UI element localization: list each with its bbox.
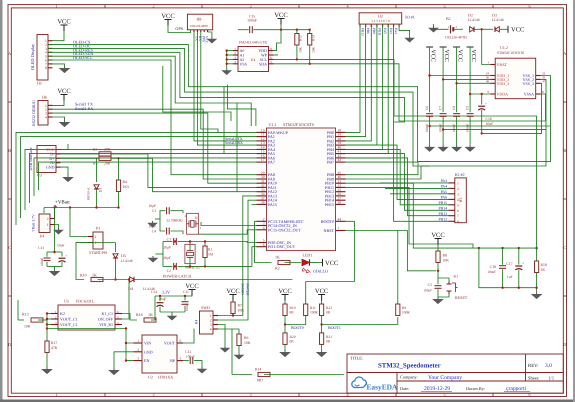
svg-text:A: A — [8, 51, 11, 56]
svg-text:32.768KHz: 32.768KHz — [166, 219, 183, 223]
svg-text:BOOT0: BOOT0 — [321, 219, 334, 224]
svg-text:10K: 10K — [443, 259, 450, 263]
svg-text:PA3: PA3 — [441, 179, 448, 183]
svg-text:C6: C6 — [425, 106, 429, 110]
svg-text:R8: R8 — [443, 254, 448, 258]
wire caps to rail and ground — [54, 208, 56, 253]
svg-text:FDC6331L: FDC6331L — [76, 299, 95, 304]
svg-text:R9: R9 — [402, 306, 406, 310]
svg-text:10uF: 10uF — [159, 297, 166, 301]
connector H1 OLED Display — [37, 35, 48, 81]
svg-text:100nF: 100nF — [425, 124, 429, 133]
svg-text:K1: K1 — [454, 275, 459, 279]
resistor R12 10K pullup SCL — [295, 34, 299, 46]
svg-text:2: 2 — [457, 187, 459, 191]
svg-text:OLED Display: OLED Display — [30, 43, 35, 70]
svg-text:SWDIO: SWDIO — [241, 283, 245, 295]
svg-text:A: A — [563, 51, 566, 56]
svg-text:7: 7 — [338, 227, 340, 231]
svg-text:PB14: PB14 — [439, 207, 448, 211]
bus corner wires from right field — [227, 85, 256, 126]
diode D1 RB510-A ESD on USB D+ — [96, 158, 98, 182]
svg-text:STM32F103C8T6: STM32F103C8T6 — [283, 122, 314, 127]
wire R3 to PA11 — [111, 154, 257, 188]
svg-text:6: 6 — [180, 339, 182, 343]
svg-text:C5: C5 — [428, 283, 433, 287]
svg-text:4: 4 — [210, 327, 212, 331]
svg-text:REV:: REV: — [528, 363, 539, 369]
wire OLED-RES net — [48, 52, 404, 122]
svg-text:PB8: PB8 — [372, 28, 376, 34]
svg-text:Company:: Company: — [400, 375, 418, 380]
capacitor C16 10uF on VDDA — [481, 94, 483, 105]
resistor R3 20R on USB D- — [61, 153, 100, 155]
svg-text:PB6: PB6 — [366, 28, 370, 34]
svg-text:100nF: 100nF — [452, 124, 456, 133]
wire GPS pin3 down joining bus — [201, 32, 218, 132]
svg-text:LED1: LED1 — [303, 253, 313, 258]
wire 3.3V output to U2 VIN — [47, 329, 134, 344]
H3 upper pin wires from left — [380, 182, 449, 184]
svg-text:PB11: PB11 — [378, 28, 382, 36]
svg-text:H6: H6 — [42, 95, 47, 100]
wire PB9 right — [346, 166, 430, 179]
svg-text:3: 3 — [249, 392, 251, 397]
svg-text:1: 1 — [137, 339, 139, 343]
svg-text:PB7: PB7 — [327, 160, 334, 165]
svg-text:R10: R10 — [80, 273, 87, 278]
VCC flag for H1 — [61, 24, 68, 26]
svg-text:VCC: VCC — [431, 232, 444, 239]
resistor R21 0R — [320, 333, 324, 345]
ground for P4 pin1 — [55, 225, 59, 229]
svg-text:Date:: Date: — [400, 386, 409, 391]
svg-text:2: 2 — [152, 3, 154, 8]
svg-text:PA5: PA5 — [383, 28, 387, 34]
svg-text:1K: 1K — [541, 268, 546, 272]
wire PA15 stub — [252, 203, 257, 205]
svg-text:BOOT1: BOOT1 — [328, 325, 341, 330]
svg-text:R22: R22 — [326, 306, 332, 310]
svg-text:20pF: 20pF — [164, 256, 171, 260]
GPS pin wires down — [193, 30, 195, 32]
svg-text:CR1220-4FTH: CR1220-4FTH — [445, 36, 467, 40]
wire U2 GND to ground — [114, 352, 134, 368]
wire H6 pin4 to ground — [53, 117, 65, 120]
svg-text:VIN_R1: VIN_R1 — [99, 322, 113, 327]
resistor R22 0R — [320, 304, 324, 316]
wire VCC rail to R12 R13 tops — [281, 29, 310, 31]
IC U5 FDC6331L — [58, 305, 115, 330]
svg-text:1: 1 — [55, 392, 57, 397]
long wire to PA4 — [25, 149, 257, 210]
svg-text:C3: C3 — [152, 209, 156, 213]
wire GPS RX to PA3 — [197, 32, 256, 145]
svg-text:EasyEDA: EasyEDA — [367, 383, 398, 392]
svg-text:PB15: PB15 — [439, 201, 448, 205]
svg-text:PB13: PB13 — [361, 28, 365, 36]
svg-text:D5: D5 — [121, 253, 126, 258]
svg-text:C11: C11 — [183, 290, 189, 294]
wire OLED-SCL net — [48, 60, 256, 175]
IC U2 HT7833 regulator — [142, 335, 177, 373]
wire OLED-DC net — [48, 48, 546, 166]
svg-text:6: 6 — [263, 243, 265, 247]
svg-text:X1: X1 — [195, 216, 200, 220]
connector P4 VBatt 3.7V — [39, 214, 50, 233]
svg-text:STM32_Speedometer: STM32_Speedometer — [378, 363, 441, 370]
svg-text:C1: C1 — [167, 238, 172, 242]
svg-text:PB13: PB13 — [439, 212, 448, 216]
resistor R4 1K5 vertical — [118, 158, 120, 180]
svg-text:UBLOX-M8N: UBLOX-M8N — [190, 24, 208, 28]
capacitor C11 100nF — [184, 296, 186, 300]
svg-text:C7: C7 — [438, 106, 442, 110]
svg-text:R1: R1 — [208, 248, 212, 252]
wire P3 pin2 to +VBatt — [70, 208, 88, 237]
svg-text:R11: R11 — [310, 306, 316, 310]
svg-text:1: 1 — [210, 314, 212, 318]
svg-text:3: 3 — [210, 323, 212, 327]
svg-text:USB Interface: USB Interface — [28, 147, 33, 170]
svg-text:BP: BP — [170, 358, 176, 363]
svg-text:IO #2: IO #2 — [455, 172, 465, 177]
ground for C14 C11 — [160, 311, 185, 313]
svg-text:VSS: VSS — [240, 61, 247, 66]
svg-text:LL4148: LL4148 — [468, 18, 480, 22]
svg-text:SWD: SWD — [201, 305, 210, 310]
svg-text:43: 43 — [338, 158, 342, 162]
svg-text:10uF: 10uF — [57, 244, 64, 248]
svg-text:1uF: 1uF — [507, 275, 513, 279]
wire rail down to filter caps — [43, 208, 45, 214]
svg-text:0R7: 0R7 — [257, 379, 263, 383]
VCC flag for H6 — [61, 94, 68, 96]
svg-text:PA5: PA5 — [441, 190, 448, 194]
diode D5 LL4148 from START to ON — [115, 243, 117, 253]
svg-text:C16: C16 — [486, 117, 492, 121]
svg-text:4: 4 — [45, 115, 47, 119]
resistor R13 10K at U5 input — [18, 319, 24, 321]
svg-text:VSS_3: VSS_3 — [523, 81, 534, 86]
wire BOOT1 to R9 — [322, 317, 398, 325]
svg-text:5: 5 — [457, 203, 459, 207]
svg-text:1M: 1M — [208, 253, 214, 257]
svg-text:8: 8 — [457, 220, 459, 224]
svg-text:1K5: 1K5 — [123, 185, 130, 189]
svg-text:4: 4 — [457, 198, 459, 202]
svg-text:38: 38 — [261, 201, 265, 205]
svg-text:R19: R19 — [290, 306, 296, 310]
svg-text:28: 28 — [338, 201, 342, 205]
svg-text:Drawn By:: Drawn By: — [466, 386, 485, 391]
svg-text:C13: C13 — [38, 246, 44, 250]
svg-text:R21: R21 — [326, 335, 332, 339]
connector P3 START-PB — [93, 232, 103, 249]
svg-text:PPS: PPS — [201, 36, 205, 42]
svg-text:10K: 10K — [311, 47, 315, 53]
wire VSS loop return — [430, 76, 551, 127]
wire VCC to H1 pin 1 — [53, 31, 65, 41]
svg-text:10K: 10K — [244, 341, 251, 345]
svg-text:H4: H4 — [195, 320, 199, 325]
resistor R19 0R — [283, 304, 287, 316]
svg-text:ON_OFF: ON_OFF — [98, 317, 114, 322]
svg-text:100nF: 100nF — [186, 355, 195, 359]
svg-text:D2: D2 — [468, 13, 473, 18]
wire PB10 to right field — [346, 183, 479, 248]
svg-text:R20: R20 — [290, 335, 296, 339]
resistor R18 1K — [536, 248, 538, 261]
svg-text:1: 1 — [47, 223, 49, 227]
svg-text:RESET: RESET — [455, 295, 468, 300]
wire PC15 to X1 — [198, 230, 256, 234]
svg-text:3.0: 3.0 — [545, 363, 552, 369]
svg-text:100nF: 100nF — [40, 258, 44, 267]
net POWER-LATCH wire — [134, 279, 292, 281]
svg-text:PB12: PB12 — [439, 218, 448, 222]
svg-text:C18: C18 — [490, 265, 496, 269]
resistor R5 20R on USB D+ — [61, 157, 100, 159]
svg-text:START-PB: START-PB — [89, 250, 107, 255]
svg-text:1: 1 — [95, 241, 97, 245]
svg-text:PB15: PB15 — [325, 202, 334, 207]
wire U4 address pins to ground — [227, 50, 233, 52]
svg-text:GIALLO: GIALLO — [313, 269, 328, 274]
wire NRST from MCU to reset circuit — [346, 231, 437, 271]
svg-text:PA7: PA7 — [268, 160, 275, 165]
svg-text:100nF: 100nF — [438, 124, 442, 133]
svg-text:BOOT0: BOOT0 — [291, 325, 304, 330]
svg-text:VCC: VCC — [278, 288, 291, 295]
svg-text:VCC: VCC — [226, 288, 239, 295]
svg-text:2: 2 — [152, 392, 154, 397]
long wire to PA1 — [21, 137, 257, 218]
wire PC13 to R2 — [255, 221, 272, 262]
svg-text:3: 3 — [137, 357, 139, 361]
svg-text:2: 2 — [137, 348, 139, 352]
wire PC14 to X1 — [201, 222, 257, 226]
svg-text:U5: U5 — [64, 299, 69, 304]
ground for H1 — [60, 66, 69, 73]
VCC flag for GPS — [165, 19, 172, 21]
wire OLED-CS net to bus — [48, 45, 550, 162]
ground for X2 caps — [162, 242, 164, 267]
svg-text:10K: 10K — [299, 47, 303, 53]
svg-text:VCC: VCC — [325, 260, 338, 267]
VDD rail wires — [429, 47, 431, 112]
svg-text:RX: RX — [198, 36, 202, 41]
wire PB6 right down — [346, 158, 449, 216]
svg-text:Serial2 RX: Serial2 RX — [225, 140, 243, 145]
svg-text:FM24CL64B-GTR: FM24CL64B-GTR — [239, 41, 267, 45]
svg-text:VBAT: VBAT — [497, 62, 508, 67]
junction BOOT0 node — [284, 316, 286, 333]
svg-text:D: D — [563, 342, 566, 347]
svg-text:VCC: VCC — [185, 283, 198, 290]
svg-text:VCC: VCC — [443, 50, 449, 62]
ground for crystal caps — [155, 218, 160, 220]
wire SWD pin4 to R6 — [218, 329, 239, 334]
capacitor C5 100nF on reset — [435, 285, 442, 287]
connector U3 USB Interface — [37, 146, 56, 173]
svg-text:U3: U3 — [37, 173, 42, 178]
wire PB8 right — [346, 162, 430, 175]
svg-text:K1_C1: K1_C1 — [101, 311, 113, 316]
svg-text:U2: U2 — [148, 375, 153, 380]
svg-text:U4: U4 — [251, 58, 256, 62]
U4 WP stub — [274, 54, 279, 56]
capacitor C12 100nF on BP — [183, 360, 189, 362]
svg-text:C: C — [563, 245, 566, 250]
wire U5 left pins common — [47, 313, 51, 315]
resistor R2 1K on LED line — [278, 260, 290, 264]
svg-text:1K: 1K — [148, 312, 153, 317]
svg-text:5: 5 — [443, 3, 445, 8]
svg-text:47K: 47K — [51, 346, 58, 350]
wire R5 to PA12 — [111, 158, 257, 191]
svg-text:LL4148: LL4148 — [121, 259, 133, 263]
svg-text:PA6: PA6 — [441, 196, 448, 200]
resistor R13 10K pullup SDA — [308, 34, 312, 46]
svg-text:SWCLK: SWCLK — [246, 283, 250, 296]
svg-text:Serial1 RX: Serial1 RX — [75, 106, 93, 111]
svg-text:100K: 100K — [402, 311, 410, 315]
wire USB VCC stub — [61, 144, 69, 150]
wire PA14 SWCLK down to SWD header — [214, 200, 257, 320]
svg-text:VOUT_C1: VOUT_C1 — [60, 317, 78, 322]
svg-text:6: 6 — [528, 3, 530, 8]
ground for H6 — [60, 120, 69, 127]
wire U5 K1_C1 to R16 — [122, 314, 137, 321]
svg-text:VOUT_C1: VOUT_C1 — [60, 322, 78, 327]
VCC flag right of D3 — [507, 26, 509, 33]
VCC flag for reset pullup — [435, 238, 442, 240]
svg-text:100nF: 100nF — [465, 124, 469, 133]
svg-text:5: 5 — [180, 357, 182, 361]
long wire to PA5 — [30, 154, 257, 203]
title block — [347, 354, 563, 393]
+VBatt rail — [44, 207, 119, 209]
svg-text:D: D — [8, 342, 11, 347]
ground for GPS — [207, 30, 209, 32]
svg-text:PA15: PA15 — [268, 202, 277, 207]
svg-text:R18: R18 — [541, 263, 547, 267]
svg-text:+VBatt: +VBatt — [55, 200, 70, 206]
svg-text:VCC: VCC — [274, 12, 287, 19]
svg-text:R16: R16 — [136, 312, 143, 317]
ground row under decoupling caps — [425, 145, 434, 151]
resistor R9 100K — [396, 304, 400, 316]
svg-text:R13: R13 — [22, 312, 29, 317]
connector H8 GPS UBLOX-M8N — [187, 14, 212, 30]
wire PD1 to crystal — [190, 247, 257, 267]
svg-text:3,3V: 3,3V — [162, 290, 170, 295]
svg-text:GND: GND — [144, 349, 153, 354]
svg-text:R17: R17 — [51, 341, 57, 345]
diode D4 LL4148 power latch — [98, 279, 129, 281]
resistor R1 1M across crystal — [204, 242, 206, 247]
IC U4 FM24CL64B-GTR — [238, 47, 269, 72]
svg-text:3: 3 — [457, 192, 459, 196]
svg-text:100nF: 100nF — [247, 19, 257, 23]
svg-text:1/1: 1/1 — [548, 375, 555, 381]
resistor R6 10K pulldown SWCLK — [237, 334, 241, 346]
wire PB11 right — [346, 187, 474, 248]
svg-text:VOUT: VOUT — [164, 341, 176, 346]
wire PA13 SWDIO down to SWD header — [214, 196, 257, 316]
wire P4 pin2 to +VBatt rail — [54, 208, 56, 219]
connector H4 SWD — [200, 311, 214, 334]
capacitor C14 10uF — [159, 296, 161, 301]
wire PB4 right down — [346, 149, 449, 204]
svg-text:VCC: VCC — [315, 288, 328, 295]
svg-text:Sheet:: Sheet: — [528, 375, 539, 380]
svg-text:IO #1: IO #1 — [405, 14, 415, 19]
svg-text:VIN: VIN — [144, 341, 151, 346]
svg-text:STM32F103C8T6: STM32F103C8T6 — [497, 51, 524, 55]
svg-text:TITLE:: TITLE: — [350, 356, 363, 361]
svg-text:H2: H2 — [378, 14, 383, 19]
svg-text:U1.2: U1.2 — [500, 45, 508, 50]
svg-text:6: 6 — [457, 209, 459, 213]
svg-text:B: B — [563, 148, 566, 153]
wire PD0 to crystal — [190, 242, 257, 243]
svg-text:20pF: 20pF — [164, 246, 171, 250]
connector H6 RS232 DEBUG — [38, 101, 48, 126]
svg-text:VCC: VCC — [57, 88, 70, 95]
wire SCL from U4 to right bus — [274, 59, 537, 248]
svg-text:2: 2 — [95, 235, 97, 239]
ground for H2 pin8 — [399, 24, 410, 36]
svg-text:NRST: NRST — [324, 228, 335, 233]
svg-text:R6: R6 — [244, 336, 249, 340]
IC U1.1 STM32F103C8T6 MCU — [267, 128, 336, 251]
svg-text:VCC: VCC — [430, 50, 436, 62]
svg-text:0R: 0R — [326, 340, 331, 344]
svg-text:B: B — [8, 148, 11, 153]
svg-text:GND: GND — [46, 165, 55, 170]
IC U1.2 STM32F103C8T6 power — [495, 58, 536, 98]
svg-text:10pF: 10pF — [149, 204, 156, 208]
wire R9 up to NRST net — [397, 231, 399, 305]
svg-text:R14: R14 — [255, 368, 261, 372]
svg-text:4: 4 — [263, 226, 265, 230]
resistor R11 100K from BOOT0 — [304, 304, 308, 316]
wire PB5 right down — [346, 154, 449, 211]
svg-text:P4: P4 — [40, 234, 44, 239]
svg-text:SDA: SDA — [259, 61, 267, 66]
wire PB7 right to long rail — [346, 161, 418, 163]
long wire to PA7 — [39, 162, 257, 190]
svg-text:RS232 DEBUG: RS232 DEBUG — [31, 100, 36, 126]
H2 pin wires to MCU PB pins — [346, 24, 361, 132]
capacitor C13 100nF — [47, 251, 62, 253]
svg-text:R2: R2 — [275, 266, 280, 271]
resistor R20 0R — [283, 333, 287, 345]
svg-text:10K: 10K — [238, 309, 245, 313]
svg-text:C: C — [8, 245, 11, 250]
svg-text:VCC: VCC — [470, 50, 476, 62]
svg-text:0R: 0R — [290, 311, 295, 315]
svg-text:VSSA: VSSA — [524, 92, 534, 97]
wire H1 pin7 to ground — [53, 64, 65, 66]
wire ON_OFF up to latch line — [122, 280, 129, 320]
wire GPS TX to PA2 Serial2 — [194, 32, 257, 141]
net label 3,3V and VCC flag — [154, 296, 156, 320]
svg-text:POWER-LATCH: POWER-LATCH — [163, 274, 191, 279]
wire top rail of RC group — [479, 247, 537, 249]
